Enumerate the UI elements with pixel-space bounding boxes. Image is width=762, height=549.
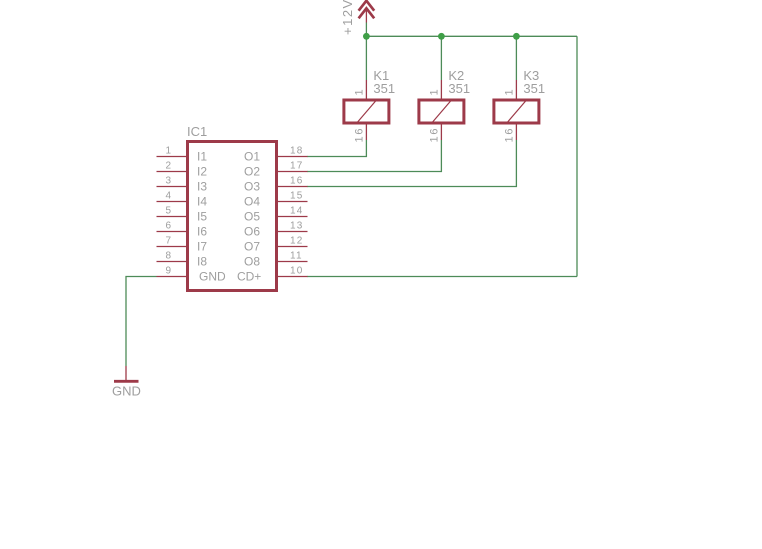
- svg-text:1: 1: [353, 89, 365, 95]
- svg-text:GND: GND: [199, 270, 226, 284]
- svg-text:11: 11: [290, 251, 303, 262]
- IC1 left pin numbers 1-9: [165, 146, 171, 277]
- svg-text:5: 5: [165, 206, 171, 217]
- svg-text:O5: O5: [244, 210, 260, 224]
- svg-text:18: 18: [290, 146, 304, 157]
- svg-text:O7: O7: [244, 240, 260, 254]
- svg-text:I6: I6: [197, 225, 207, 239]
- svg-text:O3: O3: [244, 180, 260, 194]
- relay K3: [494, 68, 545, 143]
- relay K2: [419, 68, 470, 143]
- svg-text:O1: O1: [244, 150, 260, 164]
- svg-text:O2: O2: [244, 165, 260, 179]
- svg-text:IC1: IC1: [187, 124, 207, 139]
- junction at K3 tap: [513, 33, 520, 40]
- svg-text:14: 14: [290, 206, 304, 217]
- svg-text:O8: O8: [244, 255, 260, 269]
- wire net +12V bus: [307, 23, 577, 277]
- svg-text:1: 1: [503, 89, 515, 95]
- svg-text:I2: I2: [197, 165, 207, 179]
- svg-text:I4: I4: [197, 195, 207, 209]
- svg-text:13: 13: [290, 221, 304, 232]
- IC1 right pin numbers 18-10: [290, 146, 304, 277]
- relay K1: [344, 68, 395, 143]
- svg-text:12: 12: [290, 236, 304, 247]
- wire net O2 (pin17 to K2): [307, 140, 441, 172]
- svg-text:8: 8: [165, 251, 171, 262]
- svg-text:O6: O6: [244, 225, 260, 239]
- ic IC1: [187, 124, 277, 291]
- IC1 left pin stubs: [157, 157, 187, 277]
- svg-text:16: 16: [290, 176, 304, 187]
- ground symbol: [112, 366, 141, 399]
- IC1 right pin stubs: [278, 157, 308, 277]
- svg-text:351: 351: [448, 81, 470, 96]
- svg-text:3: 3: [165, 176, 171, 187]
- svg-text:1: 1: [428, 89, 440, 95]
- svg-text:1: 1: [165, 146, 171, 157]
- wire net O3 (pin16 to K3): [307, 140, 516, 187]
- svg-text:4: 4: [165, 191, 171, 202]
- svg-text:351: 351: [523, 81, 545, 96]
- IC1 input pin names I1-I8: [197, 150, 226, 284]
- svg-text:CD+: CD+: [237, 270, 261, 284]
- svg-text:16: 16: [428, 127, 440, 143]
- svg-text:7: 7: [165, 236, 171, 247]
- svg-text:351: 351: [373, 81, 395, 96]
- supply +12V: [359, 1, 375, 23]
- svg-text:I3: I3: [197, 180, 207, 194]
- svg-text:GND: GND: [112, 384, 141, 399]
- junction at K2 tap: [438, 33, 445, 40]
- wire net GND: [126, 277, 157, 367]
- svg-text:I5: I5: [197, 210, 207, 224]
- svg-text:O4: O4: [244, 195, 260, 209]
- IC1 output pin names O1-O8: [237, 150, 261, 284]
- svg-text:15: 15: [290, 191, 304, 202]
- wire net O1 (pin18 to K1): [307, 140, 366, 157]
- svg-text:2: 2: [165, 161, 171, 172]
- svg-text:6: 6: [165, 221, 171, 232]
- svg-text:I7: I7: [197, 240, 207, 254]
- svg-text:I1: I1: [197, 150, 207, 164]
- svg-text:I8: I8: [197, 255, 207, 269]
- svg-text:10: 10: [290, 266, 304, 277]
- junction at K1 tap: [363, 33, 370, 40]
- svg-text:9: 9: [165, 266, 171, 277]
- svg-text:16: 16: [353, 127, 365, 143]
- svg-text:16: 16: [503, 127, 515, 143]
- svg-text:17: 17: [290, 161, 304, 172]
- svg-text:+12V: +12V: [340, 0, 355, 35]
